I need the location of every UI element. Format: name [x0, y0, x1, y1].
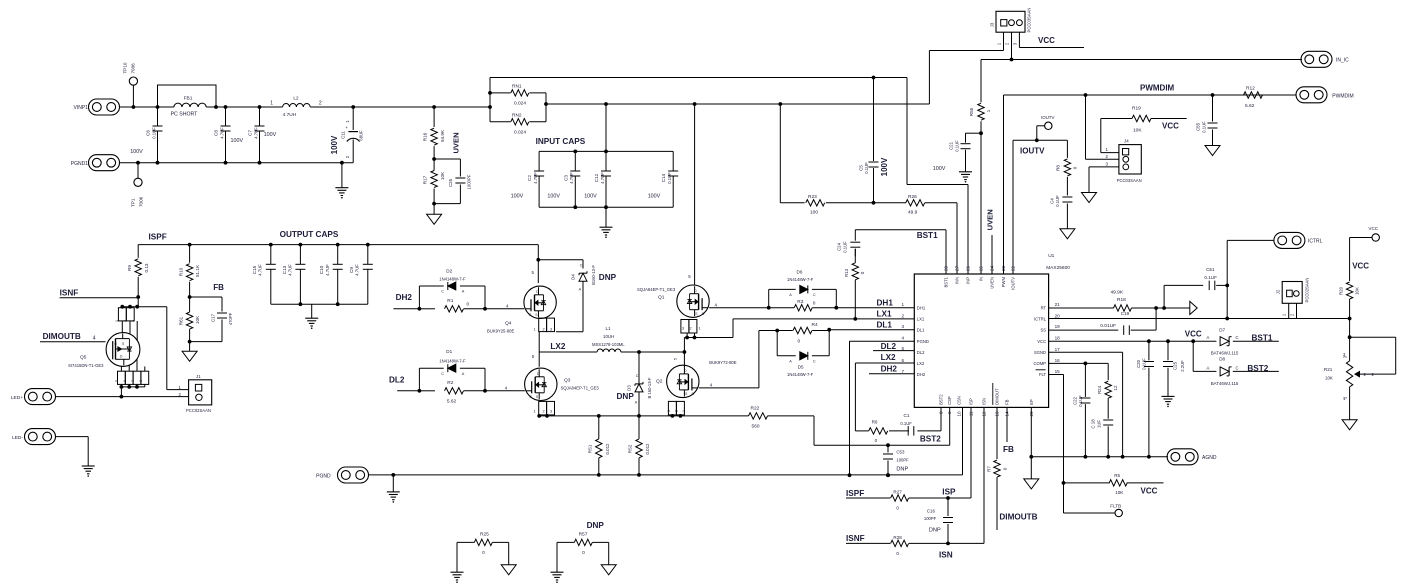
svg-text:10K: 10K — [1355, 287, 1360, 295]
svg-text:A: A — [789, 359, 792, 363]
capacitor C3 4.7UF 100V — [547, 151, 580, 207]
svg-text:12: 12 — [1113, 385, 1118, 391]
wire output caps bottom — [271, 303, 368, 305]
svg-text:MSS1278-103ML: MSS1278-103ML — [592, 342, 625, 347]
svg-text:100V: 100V — [648, 193, 661, 199]
U1 bottom pin names — [939, 383, 1034, 417]
arrow off-page RT — [1190, 301, 1197, 314]
svg-text:C: C — [441, 290, 444, 294]
svg-text:0: 0 — [896, 506, 899, 511]
svg-text:SQJA84EP-T1_GE3: SQJA84EP-T1_GE3 — [561, 386, 600, 391]
capacitor C24 0.1UF — [837, 230, 861, 257]
svg-text:26: 26 — [966, 265, 971, 271]
svg-text:R57: R57 — [579, 531, 588, 537]
wire main VIN to RN pair — [353, 105, 490, 109]
wire ICTRL connector — [1227, 240, 1274, 318]
svg-text:DL2: DL2 — [917, 350, 925, 355]
svg-text:0.1UF: 0.1UF — [1055, 195, 1060, 207]
capacitor C51 0.1UF — [1204, 267, 1229, 290]
svg-text:R17: R17 — [422, 175, 427, 184]
wire LED- to ground — [56, 437, 89, 466]
svg-text:VCC: VCC — [1352, 262, 1369, 271]
resistor R1 0 — [419, 298, 485, 312]
svg-text:1N4148W-7-F: 1N4148W-7-F — [439, 359, 466, 364]
svg-text:UVEN: UVEN — [986, 209, 995, 230]
svg-text:VCC: VCC — [1141, 486, 1158, 495]
resistor R3 0 — [769, 299, 837, 311]
svg-text:4.7UH: 4.7UH — [283, 112, 297, 118]
diode D2 1N4148W-7-F — [419, 268, 485, 309]
svg-text:2: 2 — [902, 313, 905, 318]
svg-text:10K: 10K — [440, 171, 445, 180]
svg-text:5: 5 — [115, 380, 119, 382]
svg-text:BST2: BST2 — [1247, 364, 1268, 373]
label INPUT CAPS — [536, 137, 586, 146]
resistor RS2 0.012 — [628, 416, 651, 477]
U1 pin7 DH2 stub — [869, 364, 914, 374]
resistor RN1 0.024 — [490, 84, 546, 107]
svg-text:0.13: 0.13 — [144, 263, 149, 272]
svg-text:54.9K: 54.9K — [440, 129, 445, 142]
resistor R27 0 — [846, 490, 950, 511]
connector J3 PCC03SAAN — [990, 8, 1032, 60]
capacitor C55 0.1UF — [1196, 95, 1218, 146]
resistor R13 0 — [844, 249, 865, 319]
svg-text:DH1: DH1 — [917, 305, 926, 310]
svg-text:1: 1 — [902, 302, 905, 307]
U1 pin 24 UVEN stub — [986, 209, 995, 274]
resistor RS1 0.012 — [587, 416, 610, 477]
svg-text:SI7415DN-T1-GE3: SI7415DN-T1-GE3 — [68, 363, 104, 368]
svg-text:G: G — [114, 342, 117, 346]
svg-text:0.1UF: 0.1UF — [667, 172, 672, 184]
label ISPF bottom — [846, 489, 864, 498]
svg-text:1N4148W-7-F: 1N4148W-7-F — [787, 372, 814, 377]
svg-text:R8: R8 — [1055, 165, 1060, 171]
capacitor C14 0.1UF 100V — [648, 151, 679, 207]
svg-text:BUK9Y25-80E: BUK9Y25-80E — [487, 329, 514, 334]
svg-text:0: 0 — [482, 550, 485, 556]
svg-text:IOUTV: IOUTV — [1041, 115, 1054, 120]
connector PGND1 — [71, 155, 120, 171]
svg-text:R25: R25 — [480, 531, 489, 537]
capacitor C22 0.1UF — [1072, 363, 1090, 456]
svg-text:FB1: FB1 — [184, 96, 193, 102]
capacitor C9 4.7UF — [349, 245, 373, 305]
svg-text:Q3: Q3 — [564, 378, 571, 384]
svg-text:COMP: COMP — [1034, 361, 1047, 366]
svg-text:ISNF: ISNF — [846, 534, 865, 543]
resistor R12 5.62 — [1244, 86, 1263, 110]
connector J2 PCC02SAAN — [1275, 278, 1309, 319]
svg-text:8: 8 — [139, 380, 143, 382]
svg-text:C15: C15 — [252, 265, 257, 274]
transistor Q5 SI7415DN-T1-GE3 — [68, 333, 140, 368]
ground triangle under R61 — [182, 342, 197, 362]
svg-text:2: 2 — [675, 410, 679, 412]
svg-text:A: A — [635, 400, 638, 404]
svg-text:28: 28 — [944, 265, 949, 271]
label ISPF — [149, 233, 167, 242]
resistor R26 49.9 — [906, 194, 925, 215]
label PWMDIM — [1140, 84, 1175, 93]
svg-text:4.7UF: 4.7UF — [258, 264, 263, 276]
wire INN to IC — [925, 203, 957, 274]
ground triangle EP — [1024, 479, 1039, 489]
resistor R20 10K — [1338, 282, 1359, 319]
wire Q2 drain to LX1 — [683, 352, 685, 367]
svg-text:R10: R10 — [178, 267, 183, 276]
label ISNF bottom — [846, 534, 865, 543]
svg-text:3: 3 — [550, 409, 552, 413]
svg-text:5.62: 5.62 — [1245, 103, 1255, 109]
capacitor C20 0.1UF — [1136, 341, 1154, 457]
wire BST2 pin to C1 — [917, 407, 941, 431]
wire VCC pin line — [1049, 330, 1202, 344]
svg-text:0: 0 — [1073, 166, 1078, 169]
svg-text:2: 2 — [690, 327, 692, 331]
svg-text:R6: R6 — [872, 420, 878, 425]
svg-text:C17: C17 — [211, 313, 216, 322]
svg-text:1UF: 1UF — [1096, 420, 1101, 428]
resistor R19 10K — [1101, 106, 1187, 134]
svg-text:4.7UF: 4.7UF — [253, 127, 258, 139]
wire DIMOUTB to Q5 gate — [40, 341, 106, 343]
svg-text:25: 25 — [979, 265, 984, 271]
capacitor C21 0.1UF 100V — [933, 133, 981, 172]
svg-text:4.7UF: 4.7UF — [355, 264, 360, 276]
svg-text:PC SHORT: PC SHORT — [171, 112, 199, 118]
diode D6 1N4148W-7-F — [769, 270, 837, 308]
resistor R22 560 — [748, 405, 814, 429]
svg-text:C3: C3 — [563, 175, 568, 181]
svg-text:VINP1: VINP1 — [74, 105, 89, 111]
ground triangle R25 — [501, 565, 516, 575]
connector J1 PCC02SAAN — [138, 307, 212, 413]
ground triangle under C55 — [1205, 146, 1220, 156]
capacitor C1 0.1UF — [889, 413, 914, 435]
svg-text:ISPF: ISPF — [846, 489, 864, 498]
wire VOUT rail — [138, 243, 538, 247]
svg-text:10UH: 10UH — [603, 334, 614, 339]
wire ICTRL line — [1049, 317, 1352, 321]
potentiometer R21 10K — [1324, 337, 1396, 420]
svg-text:7006: 7006 — [139, 196, 144, 207]
svg-text:7: 7 — [902, 369, 905, 374]
svg-text:2: 2 — [543, 327, 545, 331]
ground PGND bus — [387, 475, 400, 503]
svg-text:VCC: VCC — [1185, 330, 1202, 339]
svg-text:IOUTV: IOUTV — [1011, 277, 1016, 290]
svg-text:0.012: 0.012 — [645, 443, 650, 455]
svg-text:0: 0 — [1002, 467, 1007, 470]
resistor R6 0 — [855, 420, 941, 444]
resistor R9 0.13 — [127, 245, 149, 299]
svg-text:LED+: LED+ — [11, 395, 23, 401]
Q1 source pin boxes — [681, 320, 701, 353]
svg-text:R7: R7 — [986, 466, 991, 472]
svg-text:Q1: Q1 — [658, 295, 665, 301]
svg-text:ISN: ISN — [982, 398, 987, 405]
wire ISP to IC — [942, 407, 971, 498]
svg-text:C12: C12 — [594, 173, 599, 182]
svg-text:PCC03SAAN: PCC03SAAN — [1117, 178, 1142, 183]
wire R23 to R26 — [826, 202, 906, 204]
transistor Q3 SQJA84EP-T1_GE3 — [525, 368, 600, 400]
svg-text:R27: R27 — [893, 490, 902, 495]
svg-text:560: 560 — [752, 424, 760, 430]
svg-text:PGND: PGND — [917, 339, 929, 344]
svg-text:BST1: BST1 — [944, 276, 949, 287]
wire FB1 to L2 — [214, 105, 283, 109]
wire source bus — [539, 414, 748, 418]
wire LX1 to IC — [695, 317, 915, 338]
ground triangle R57 — [601, 565, 616, 575]
svg-text:4.7UF: 4.7UF — [600, 172, 605, 184]
capacitor C17 470PF — [190, 297, 234, 342]
svg-text:3: 3 — [131, 320, 135, 322]
svg-text:0: 0 — [798, 339, 801, 345]
capacitor C16 100PF DNP — [924, 498, 953, 545]
svg-text:100V: 100V — [330, 135, 339, 154]
svg-text:RS2: RS2 — [628, 444, 633, 453]
transistor Q4 BUK9Y25-80E — [487, 270, 556, 334]
svg-text:ISNF: ISNF — [60, 289, 79, 298]
svg-text:A: A — [789, 293, 792, 297]
wire input caps bottom — [539, 205, 673, 209]
svg-text:0.01UF: 0.01UF — [1100, 323, 1116, 329]
wire COMP line — [1049, 362, 1109, 366]
wire L2 to node — [310, 105, 355, 109]
svg-text:2: 2 — [123, 320, 127, 322]
svg-text:1N4148W-7-F: 1N4148W-7-F — [439, 276, 466, 281]
svg-text:C14: C14 — [661, 173, 666, 182]
svg-text:RT: RT — [1041, 305, 1047, 310]
svg-text:C53: C53 — [896, 450, 905, 455]
svg-text:LX1: LX1 — [877, 310, 892, 319]
svg-text:ISP: ISP — [942, 487, 956, 496]
svg-text:BAT46WJ,115: BAT46WJ,115 — [1211, 351, 1239, 356]
wire PGND1 line — [120, 162, 354, 164]
svg-text:TP1: TP1 — [131, 198, 136, 207]
svg-text:4: 4 — [93, 336, 96, 342]
svg-text:ICTRL: ICTRL — [1308, 239, 1323, 245]
svg-text:19: 19 — [1055, 324, 1061, 329]
svg-text:PWMDIM: PWMDIM — [1332, 93, 1353, 99]
capacitor C18 1UF — [1091, 419, 1114, 457]
Q4 source pin boxes — [534, 318, 555, 353]
capacitor C7 4.7UF 100V — [248, 107, 277, 165]
svg-text:R19: R19 — [1132, 106, 1141, 112]
resistor R24 12 — [1097, 363, 1118, 418]
svg-text:C: C — [580, 263, 583, 267]
test point TP1 — [131, 161, 144, 207]
svg-text:R26: R26 — [908, 194, 917, 200]
wire main to J3 pin1 — [929, 51, 1003, 105]
svg-text:DL1: DL1 — [917, 327, 925, 332]
inductor L2 4.7UH — [270, 95, 322, 118]
svg-text:R16: R16 — [422, 132, 427, 141]
svg-text:BUK9Y72-80E: BUK9Y72-80E — [709, 360, 736, 365]
Q5 source pin boxes — [115, 297, 139, 341]
svg-text:R2: R2 — [447, 380, 453, 386]
svg-text:D2: D2 — [446, 268, 452, 273]
svg-text:0.012: 0.012 — [605, 443, 610, 455]
connector J4 PCC03SAAN — [1086, 95, 1142, 193]
diode D5 1N4148W-7-F — [777, 331, 829, 377]
svg-text:D1: D1 — [446, 349, 452, 354]
svg-text:3: 3 — [682, 327, 684, 331]
svg-text:UVEN: UVEN — [452, 132, 461, 153]
svg-text:BST1: BST1 — [1252, 333, 1273, 342]
U1 pin6 LX2 wire — [855, 353, 914, 431]
svg-text:PGND1: PGND1 — [71, 161, 88, 167]
wire VCC from J3 pin3 — [1019, 36, 1084, 48]
svg-text:EP: EP — [1029, 399, 1034, 405]
svg-text:17: 17 — [1055, 347, 1061, 352]
svg-text:R13: R13 — [844, 268, 849, 277]
inductor L1 10UH MSS1278-103ML — [592, 326, 625, 352]
svg-text:0.1UF: 0.1UF — [1078, 395, 1083, 407]
svg-text:SQJA84EP-T1_GE3: SQJA84EP-T1_GE3 — [637, 287, 676, 292]
svg-text:BST1: BST1 — [917, 231, 938, 240]
svg-text:FB: FB — [213, 283, 224, 292]
label DIMOUTB left — [43, 332, 96, 342]
svg-text:5.62: 5.62 — [447, 398, 457, 404]
wire FB pin stub — [1003, 407, 1014, 453]
svg-text:1000PF: 1000PF — [466, 174, 471, 189]
svg-text:FLTB: FLTB — [1110, 503, 1121, 508]
svg-text:C1: C1 — [904, 413, 910, 418]
ground earth R57 — [551, 572, 564, 583]
wire Q4 drain to VOUT rail — [537, 245, 539, 283]
svg-text:LX1: LX1 — [917, 317, 925, 322]
svg-text:20: 20 — [1055, 313, 1061, 318]
svg-text:7: 7 — [131, 380, 135, 382]
resistor R2 5.62 — [419, 380, 485, 404]
svg-text:100V: 100V — [130, 149, 143, 155]
connector ICTRL — [1274, 232, 1323, 248]
svg-text:27: 27 — [955, 265, 960, 271]
svg-text:IN: IN — [979, 277, 984, 281]
ground under C21 — [959, 172, 972, 183]
svg-text:PCC02SAAN: PCC02SAAN — [186, 408, 211, 413]
svg-text:C 18: C 18 — [1091, 419, 1096, 429]
svg-text:C8: C8 — [214, 130, 219, 136]
svg-text:MAX25600: MAX25600 — [1046, 265, 1070, 271]
svg-text:PGND: PGND — [316, 474, 331, 480]
U1 top pin names — [944, 265, 1016, 289]
wire LX2 node to L1 — [532, 352, 597, 359]
svg-text:INPUT CAPS: INPUT CAPS — [536, 137, 586, 146]
svg-text:ISN: ISN — [939, 551, 953, 560]
wire DIMOUT pin — [996, 407, 998, 459]
svg-text:SS: SS — [1041, 327, 1047, 332]
diode D8 BAT46WJ,115 — [1193, 341, 1279, 386]
ground C25 — [1162, 396, 1175, 407]
svg-text:0.1UF: 0.1UF — [151, 127, 156, 139]
wire FLT to R5 — [1049, 375, 1066, 514]
label FB at divider — [213, 283, 224, 292]
svg-text:FB: FB — [1003, 445, 1014, 454]
svg-text:DH1: DH1 — [877, 298, 894, 307]
svg-text:C2: C2 — [527, 175, 532, 181]
svg-text:D3: D3 — [626, 385, 631, 391]
svg-text:23: 23 — [1001, 265, 1006, 271]
wire PGND bus — [369, 473, 963, 477]
svg-text:C: C — [441, 372, 444, 376]
svg-text:0.024: 0.024 — [514, 130, 526, 136]
svg-text:1: 1 — [270, 101, 273, 107]
svg-text:100V: 100V — [933, 166, 946, 172]
svg-text:DNP: DNP — [929, 527, 941, 533]
svg-text:2.2UF: 2.2UF — [1180, 360, 1185, 372]
svg-text:10K: 10K — [1115, 490, 1124, 495]
svg-text:4.7UF: 4.7UF — [325, 264, 330, 276]
wire Q1 gate — [709, 302, 771, 309]
svg-text:BST2: BST2 — [939, 394, 944, 405]
resistor R28 0 — [846, 535, 948, 556]
ground LED- — [82, 466, 95, 477]
svg-text:C7: C7 — [248, 130, 253, 136]
svg-text:100V: 100V — [547, 193, 560, 199]
svg-text:1: 1 — [115, 320, 119, 322]
svg-text:7006: 7006 — [131, 63, 136, 74]
ground triangle R21 — [1342, 420, 1357, 430]
label DL2 — [389, 376, 405, 385]
svg-text:9: 9 — [947, 411, 952, 414]
resistor R57 0 DNP — [557, 521, 609, 572]
test point IOUTV — [1037, 115, 1055, 140]
svg-text:0.1UF: 0.1UF — [864, 162, 869, 174]
label LX1 pin2 — [877, 310, 905, 319]
svg-text:C: C — [636, 374, 639, 378]
svg-text:DNP: DNP — [896, 467, 908, 473]
capacitor C2 4.7UF 100V — [511, 151, 544, 207]
ground input caps — [600, 207, 613, 238]
op-amp U1 MAX25600 body — [914, 253, 1070, 407]
ground triangle J4 pin3 — [1082, 193, 1097, 203]
svg-text:DIMOUTB: DIMOUTB — [43, 332, 81, 341]
wire R22 to CSP — [814, 416, 890, 447]
svg-text:D6: D6 — [797, 270, 803, 275]
svg-text:0.1UF: 0.1UF — [842, 241, 847, 253]
svg-text:0.1UF: 0.1UF — [900, 421, 912, 426]
wire CSP to IC — [888, 407, 950, 445]
svg-text:C6: C6 — [146, 130, 151, 136]
diode D4 B160-13-F DNP — [536, 258, 616, 332]
svg-text:5: 5 — [674, 358, 678, 360]
svg-text:1N4148W-7-F: 1N4148W-7-F — [787, 277, 814, 282]
svg-text:SGND: SGND — [1034, 350, 1046, 355]
svg-text:21: 21 — [1055, 302, 1061, 307]
ground output caps — [305, 304, 318, 329]
svg-text:C19: C19 — [1121, 311, 1130, 316]
U1 right pin names — [1034, 302, 1061, 377]
svg-text:RS1: RS1 — [587, 444, 592, 453]
connector PWMDIM — [1296, 87, 1354, 103]
svg-text:16: 16 — [1055, 358, 1061, 363]
svg-text:DL2: DL2 — [389, 376, 405, 385]
svg-text:R4: R4 — [812, 322, 818, 328]
svg-text:R55: R55 — [969, 107, 974, 116]
svg-text:TP10: TP10 — [123, 62, 128, 73]
capacitor C15 4.7UF — [252, 245, 276, 305]
wire DL1 from IC — [827, 321, 914, 332]
svg-text:C55: C55 — [1196, 122, 1201, 131]
svg-text:C24: C24 — [837, 242, 842, 251]
svg-text:10: 10 — [957, 411, 962, 417]
